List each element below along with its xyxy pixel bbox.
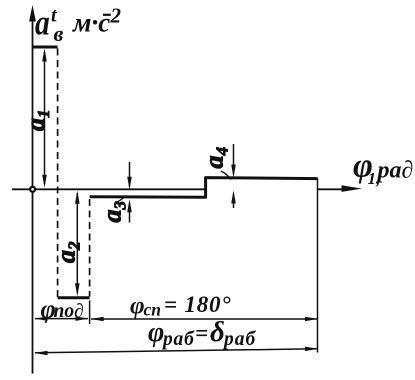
curve segment step1 (a1 level) — [33, 46, 58, 49]
svg-text:δ: δ — [210, 316, 225, 348]
svg-text:ра∂: ра∂ — [376, 158, 414, 184]
svg-text:м·с: м·с — [72, 8, 110, 38]
vertical axis arrowhead — [29, 5, 36, 22]
svg-text:a: a — [35, 4, 50, 43]
svg-text:по∂: по∂ — [54, 301, 84, 322]
svg-text:φ: φ — [148, 317, 164, 348]
svg-text:=: = — [195, 321, 208, 346]
dashed rise at end of step2 — [89, 199, 91, 297]
svg-text:в: в — [54, 21, 64, 46]
svg-text:= 180°: = 180° — [164, 292, 231, 317]
horizontal axis phi1 — [12, 188, 205, 190]
curve segment step2 bottom (-a2 level) — [58, 296, 90, 299]
horizontal axis right part — [318, 188, 344, 190]
dimension a4 arrows — [233, 144, 235, 174]
dimension a3 arrows — [129, 162, 131, 186]
dimension a2 line — [76, 193, 78, 293]
svg-text:φ: φ — [130, 293, 145, 320]
dashed drop at end of step1 — [57, 49, 59, 298]
extension tick at x=89.5 — [89, 301, 91, 325]
svg-text:2: 2 — [110, 4, 122, 28]
dimension phi_rab line — [35, 349, 317, 353]
curve segment step3 (-a3 level) and step up and step4 (a4 level) — [90, 178, 318, 198]
dimension phi_sp line — [91, 318, 317, 320]
vertical axis a — [32, 20, 34, 374]
minus of superscript -2 — [103, 14, 111, 16]
right extension line — [317, 178, 319, 353]
horizontal axis arrowhead — [342, 185, 363, 192]
svg-text:раб: раб — [222, 329, 257, 350]
svg-text:раб: раб — [161, 329, 195, 350]
dimension a1 line — [44, 52, 46, 184]
dimension phi_pod line — [35, 318, 88, 320]
origin node — [30, 187, 35, 192]
